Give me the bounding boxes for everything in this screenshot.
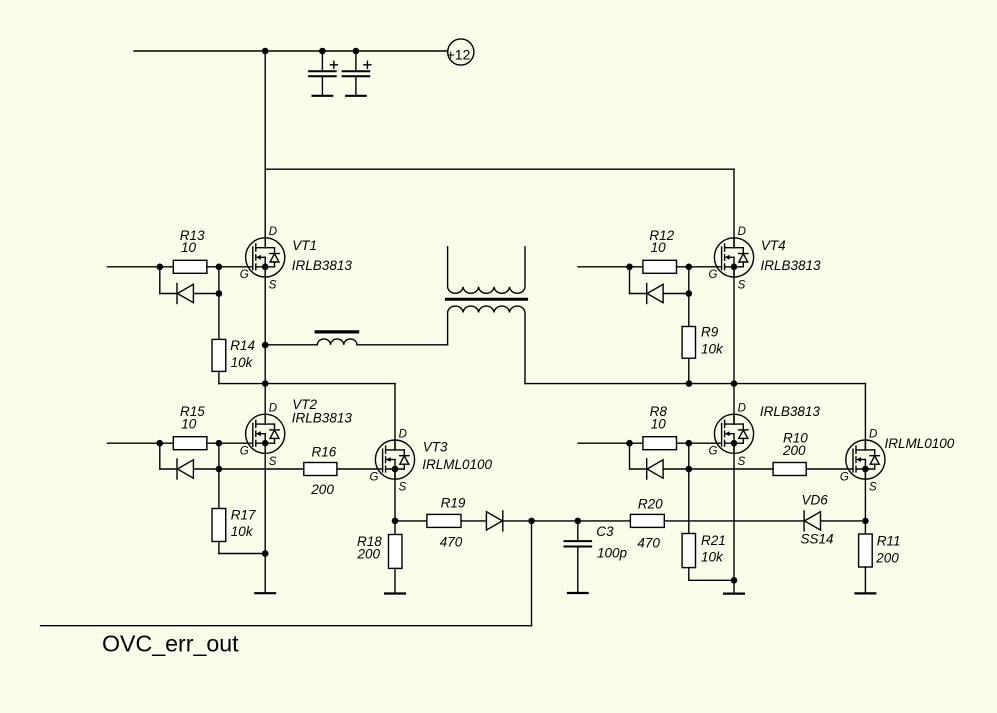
- svg-text:470: 470: [440, 535, 463, 550]
- wire diode anode: [194, 468, 219, 470]
- ground Q5 source: [724, 592, 744, 594]
- wire drain rail to VT4: [265, 168, 734, 170]
- resistor R11: [859, 534, 873, 567]
- resistor R20: [630, 514, 664, 527]
- wire R12 to gate: [677, 266, 722, 268]
- diode speedup (R8 cell): [647, 459, 663, 479]
- wire R15 input: [108, 442, 174, 444]
- wire VT1 drain column: [264, 51, 266, 248]
- wire VT4 drain column: [733, 169, 735, 248]
- wire R20 to VD6: [664, 520, 804, 522]
- wire diode anode: [663, 468, 689, 470]
- wire R8 input: [578, 442, 643, 444]
- wire R17 top: [218, 469, 220, 509]
- node R15 right junction: [216, 440, 223, 447]
- resistor R15: [173, 437, 207, 450]
- svg-text:S: S: [738, 456, 746, 468]
- resistor R17: [212, 509, 226, 542]
- node VT4 source/mid-rail junction: [731, 380, 738, 387]
- svg-text:R19: R19: [441, 496, 466, 511]
- svg-text:S: S: [738, 280, 746, 292]
- wire VT3 source to R19: [395, 520, 427, 522]
- svg-text:SS14: SS14: [801, 531, 834, 546]
- wire VT3 drain: [394, 384, 396, 450]
- wire left mid-rail: [265, 383, 395, 385]
- svg-text:G: G: [709, 269, 718, 281]
- wire primary tap to L1: [265, 344, 317, 346]
- svg-text:10k: 10k: [231, 524, 254, 539]
- svg-text:R14: R14: [230, 338, 255, 353]
- wire diode anode: [663, 293, 689, 295]
- wire VD6 to Q6 source: [821, 520, 866, 522]
- wire VT1 source to VT2 drain: [264, 267, 266, 424]
- svg-text:S: S: [269, 456, 277, 468]
- wire R14 bottom: [218, 371, 220, 383]
- node R12 right junction: [686, 264, 693, 271]
- resistor R19: [427, 514, 461, 527]
- transistor Q5 IRLB3813: [714, 414, 753, 453]
- wire R14 to source node: [219, 383, 265, 385]
- wire R8 to gate: [677, 442, 722, 444]
- ground R11: [856, 592, 876, 594]
- node VT3 source/R18/R19 junction: [392, 518, 399, 525]
- transistor VT2: [246, 414, 285, 453]
- transformer T1 primary top winding: [448, 247, 525, 293]
- svg-text:100p: 100p: [597, 546, 628, 561]
- wire R21 to Q5 source: [689, 579, 734, 581]
- wire R17 to VT2 source: [219, 553, 265, 555]
- wire to diode cathode: [630, 468, 647, 470]
- diode speedup (R13 cell): [177, 284, 193, 304]
- wire VT3 source: [394, 469, 396, 535]
- wire junction drop: [218, 443, 220, 469]
- svg-text:D: D: [738, 403, 746, 415]
- svg-text:D: D: [269, 403, 277, 415]
- wire R19 to VD5: [461, 520, 486, 522]
- svg-text:10: 10: [181, 417, 197, 432]
- wire diode cathode drop: [629, 267, 631, 294]
- node rail/C1 junction: [319, 48, 326, 55]
- wire VT2 source to ground: [264, 443, 266, 593]
- wire to diode cathode: [160, 293, 177, 295]
- svg-text:VT1: VT1: [292, 238, 317, 253]
- wire R13 to gate: [207, 266, 253, 268]
- node R8 right junction: [686, 440, 693, 447]
- wire VD5 to node: [503, 520, 531, 522]
- wire junction drop: [688, 267, 690, 294]
- transistor Q6 IRLML0100: [846, 440, 885, 479]
- resistor R21: [682, 534, 695, 568]
- svg-text:R21: R21: [701, 533, 726, 548]
- node R9/mid-rail junction: [686, 380, 693, 387]
- svg-text:VT4: VT4: [761, 238, 786, 253]
- svg-text:VT3: VT3: [423, 440, 448, 455]
- node Q6 source/R11/VD6 junction: [862, 518, 869, 525]
- svg-text:G: G: [240, 446, 249, 458]
- wire R9 bottom: [688, 358, 690, 383]
- svg-text:R17: R17: [231, 508, 256, 523]
- node diode/pulldown junction: [686, 290, 693, 297]
- svg-text:R11: R11: [877, 534, 901, 549]
- wire to diode cathode: [630, 293, 647, 295]
- svg-text:S: S: [399, 482, 407, 494]
- wire diode node to R10: [689, 468, 773, 470]
- node left mid-rail tap: [262, 380, 269, 387]
- svg-text:D: D: [869, 428, 877, 440]
- wire R13 input: [108, 266, 174, 268]
- wire diode cathode drop: [159, 443, 161, 469]
- wire junction drop: [218, 267, 220, 294]
- wire R21 top: [688, 469, 690, 534]
- wire junction drop: [688, 443, 690, 469]
- wire to diode cathode: [160, 468, 177, 470]
- svg-text:G: G: [240, 269, 249, 281]
- node VT2 source/R17 junction: [262, 550, 269, 557]
- saturable inductor L1 winding: [317, 339, 357, 345]
- svg-text:200: 200: [782, 443, 806, 458]
- svg-text:+12: +12: [447, 47, 471, 63]
- capacitor C1 (electrolytic, unlabeled): [309, 51, 337, 96]
- wire R12 input: [578, 266, 643, 268]
- wire L1 to transformer: [357, 344, 448, 346]
- wire VT4 source to Q5 drain: [733, 267, 735, 424]
- wire OVC_err_out: [41, 625, 532, 627]
- wire R11 to ground: [864, 567, 866, 593]
- svg-text:IRLB3813: IRLB3813: [760, 404, 821, 419]
- svg-text:IRLB3813: IRLB3813: [292, 410, 353, 425]
- svg-text:IRLB3813: IRLB3813: [761, 258, 822, 273]
- svg-text:C3: C3: [596, 524, 614, 539]
- wire R14 top: [218, 294, 220, 340]
- wire R16 to VT3 gate: [337, 468, 383, 470]
- capacitor C2 (electrolytic, unlabeled): [343, 51, 371, 96]
- wire Q5 source to ground: [733, 443, 735, 593]
- transistor VT1: [246, 238, 285, 277]
- svg-text:D: D: [738, 226, 746, 238]
- resistor R16: [304, 463, 337, 476]
- transformer T1 bottom winding: [448, 306, 525, 384]
- diode speedup (R15 cell): [177, 459, 193, 479]
- resistor R10: [773, 463, 806, 476]
- resistor R14: [212, 339, 226, 371]
- node OVC junction: [528, 518, 535, 525]
- node rail/C2 junction: [353, 48, 360, 55]
- resistor R12: [643, 260, 677, 273]
- svg-text:R9: R9: [701, 324, 719, 339]
- node C3 junction: [575, 518, 582, 525]
- wire R10 to Q6 gate: [806, 468, 853, 470]
- svg-text:R16: R16: [312, 445, 337, 460]
- svg-text:R20: R20: [638, 496, 663, 511]
- ground VT2 source: [255, 592, 275, 594]
- svg-text:G: G: [709, 446, 718, 458]
- node R8 left junction: [626, 440, 633, 447]
- svg-text:S: S: [869, 482, 877, 494]
- svg-text:10k: 10k: [701, 342, 724, 357]
- wire R15 to gate: [207, 442, 253, 444]
- svg-text:G: G: [370, 471, 379, 483]
- wire right mid-rail: [525, 383, 865, 385]
- svg-text:200: 200: [357, 546, 381, 561]
- node R13 right junction: [216, 264, 223, 271]
- wire OVC drop: [531, 521, 533, 626]
- wire C3 to R20: [578, 520, 631, 522]
- svg-text:OVC_err_out: OVC_err_out: [102, 630, 239, 656]
- transistor VT3: [375, 440, 414, 479]
- wire Q6 drain: [864, 384, 866, 450]
- svg-text:S: S: [269, 280, 277, 292]
- svg-text:10k: 10k: [701, 549, 724, 564]
- resistor R9: [682, 327, 695, 359]
- resistor R18: [389, 535, 403, 569]
- svg-text:D: D: [269, 226, 277, 238]
- wire R18 to ground: [394, 568, 396, 593]
- svg-text:G: G: [840, 471, 849, 483]
- resistor R8: [643, 437, 677, 450]
- ground R18: [385, 592, 405, 594]
- svg-text:VD6: VD6: [802, 493, 829, 508]
- svg-text:470: 470: [637, 536, 660, 551]
- wire diode node to R16: [219, 468, 304, 470]
- wire node to C3: [532, 520, 578, 522]
- power node +12: [448, 39, 474, 65]
- diode VD6: [804, 511, 820, 531]
- svg-text:IRLML0100: IRLML0100: [885, 436, 955, 451]
- svg-text:10k: 10k: [231, 355, 254, 370]
- capacitor C3: [565, 521, 592, 593]
- saturable inductor L1 core: [316, 330, 357, 333]
- transformer T1 core: [446, 298, 526, 301]
- node diode/pulldown junction: [216, 466, 223, 473]
- node diode/pulldown junction: [216, 290, 223, 297]
- svg-text:10: 10: [181, 240, 197, 255]
- diode speedup (R12 cell): [647, 284, 663, 304]
- svg-text:200: 200: [310, 482, 334, 497]
- svg-text:200: 200: [875, 550, 899, 565]
- svg-text:10: 10: [651, 417, 667, 432]
- wire R17 bottom: [218, 542, 220, 554]
- wire +12 rail: [134, 50, 448, 52]
- wire diode cathode drop: [629, 443, 631, 469]
- resistor R13: [173, 260, 207, 273]
- wire Q6 source: [864, 469, 866, 534]
- node R12 left junction: [626, 264, 633, 271]
- svg-text:D: D: [399, 428, 407, 440]
- svg-text:IRLB3813: IRLB3813: [292, 258, 353, 273]
- diode VD5 (after R19): [486, 511, 502, 531]
- wire diode cathode drop: [159, 267, 161, 294]
- transistor VT4: [714, 238, 753, 277]
- wire R9 top: [688, 294, 690, 327]
- node primary-left tap: [262, 342, 269, 349]
- svg-text:IRLML0100: IRLML0100: [422, 457, 492, 472]
- node R13 left junction: [157, 264, 164, 271]
- wire R21 bottom: [688, 568, 690, 581]
- node rail/VT1-drain junction: [262, 48, 269, 55]
- svg-text:10: 10: [651, 240, 667, 255]
- node R15 left junction: [157, 440, 164, 447]
- node diode/pulldown junction: [686, 466, 693, 473]
- wire diode anode: [194, 293, 219, 295]
- node Q5 source/R21 junction: [731, 577, 738, 584]
